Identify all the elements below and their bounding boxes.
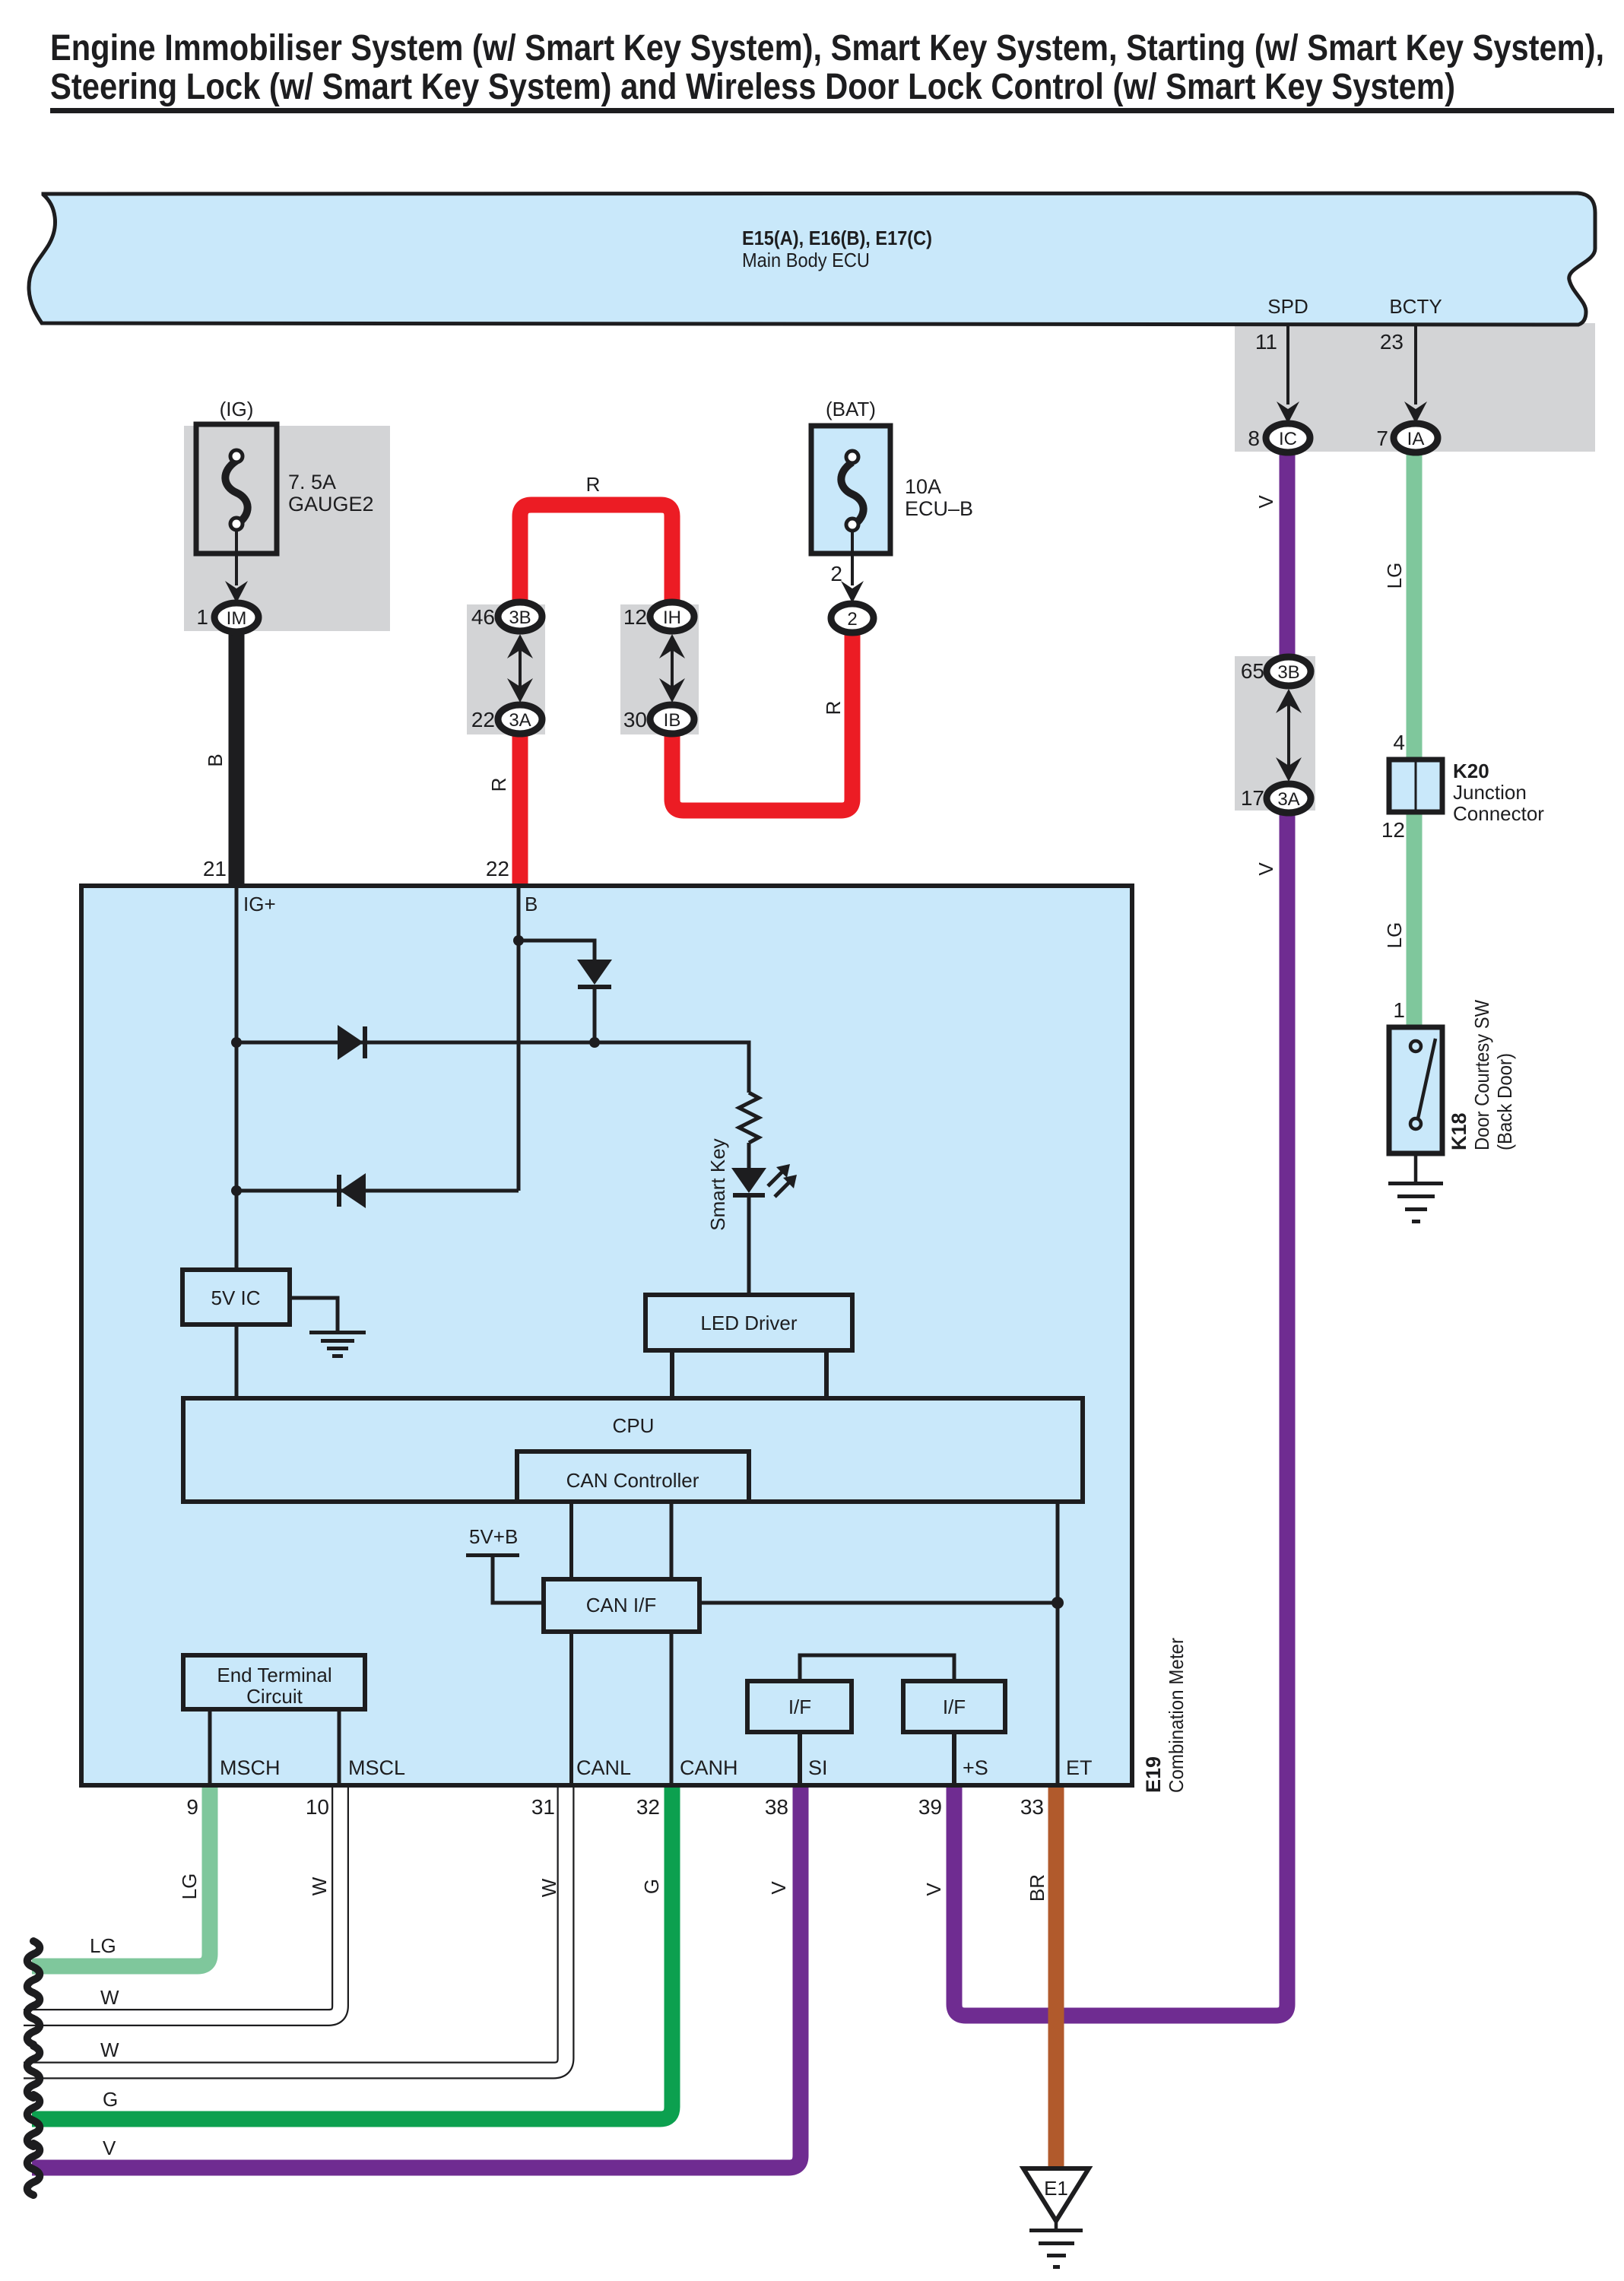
svg-text:(IG): (IG): [220, 398, 254, 420]
wire 5V IC to CPU: [235, 1325, 239, 1398]
rotated block label E19: [1142, 1756, 1165, 1793]
label LG on harness wire: [90, 1934, 116, 1957]
svg-text:IC: IC: [1279, 429, 1297, 449]
svg-text:G: G: [103, 2088, 118, 2111]
grey shade behind 3B/3A connector pair: [467, 604, 545, 734]
pin 12 number under K20: [1381, 818, 1405, 842]
svg-text:11: 11: [1255, 330, 1277, 354]
wire fuse BAT to connector 2 with arrow: [841, 531, 864, 603]
svg-text:3B: 3B: [509, 608, 531, 628]
connector 3A right: [1267, 784, 1311, 813]
svg-text:Circuit: Circuit: [246, 1685, 303, 1708]
5V IC block: [182, 1270, 290, 1325]
pin 38 number: [765, 1795, 788, 1819]
pin 11 number: [1255, 330, 1277, 354]
svg-text:LG: LG: [90, 1934, 116, 1957]
rotated wire label LG pin 9: [178, 1873, 201, 1900]
wire LG (green) from IA down to K20: [1407, 452, 1423, 762]
pin 12 number at IH: [623, 605, 647, 629]
pin 22 number at 3A: [471, 708, 495, 731]
wire I/F to SI pin: [798, 1732, 802, 1785]
svg-text:R: R: [586, 473, 601, 496]
rotated wire label LG below IA: [1383, 563, 1406, 589]
fuse 7.5A GAUGE2 box: [196, 424, 277, 554]
pin 17 number: [1241, 786, 1264, 810]
svg-text:7: 7: [1376, 427, 1388, 450]
title underline: [50, 108, 1614, 113]
rotated label K18: [1448, 1112, 1470, 1150]
connector 3A: [498, 705, 542, 734]
wire R (red) from 3A down to pin 22: [512, 731, 528, 888]
wire LG (green) from pin 9 MSCH down-left to harness: [32, 1784, 210, 1966]
rotated wire label W pin 31: [538, 1878, 560, 1897]
pin label CANL: [576, 1756, 631, 1779]
label W on harness wire: [100, 1986, 119, 2009]
pin 65 number: [1241, 659, 1264, 683]
grey shade behind IH/IB connector pair: [620, 604, 699, 734]
svg-text:BR: BR: [1026, 1874, 1048, 1902]
svg-text:IB: IB: [664, 710, 681, 731]
label G on harness wire: [103, 2088, 118, 2111]
resistor R1 for smart key LED: [739, 1093, 759, 1143]
fuse element ECU-B: [841, 451, 863, 531]
wire ETC to MSCH pin: [208, 1709, 212, 1785]
harness continuation squiggle at V wire end: [27, 2143, 40, 2195]
wire IG+ internal vertical: [235, 886, 239, 1272]
rotated wire label V pin 38: [767, 1881, 790, 1895]
wire label R above red jumper: [586, 473, 601, 496]
CAN Controller block: [517, 1451, 749, 1502]
pin 30 number: [623, 708, 647, 731]
pin 1 number above K18: [1393, 998, 1405, 1022]
wire CAN I/F to ET line: [699, 1601, 1058, 1605]
fuse element GAUGE2: [225, 450, 247, 530]
wire ETC to MSCL pin: [338, 1709, 341, 1785]
svg-text:IH: IH: [663, 608, 681, 628]
svg-text:Steering Lock (w/ Smart Key Sy: Steering Lock (w/ Smart Key System) and …: [50, 67, 1455, 107]
svg-text:MSCL: MSCL: [348, 1756, 405, 1779]
svg-text:Connector: Connector: [1453, 802, 1544, 825]
svg-text:R: R: [822, 701, 845, 715]
svg-text:1: 1: [196, 605, 208, 629]
pin 1 number: [196, 605, 208, 629]
grey shade behind IC/IA connector row: [1235, 323, 1595, 452]
LED Driver block: [645, 1295, 852, 1350]
wire horizontal IG+ to smart key branch: [236, 1042, 749, 1093]
wire SPD to IC with arrow: [1277, 325, 1299, 424]
svg-text:LG: LG: [178, 1873, 201, 1900]
svg-text:10A: 10A: [905, 475, 941, 498]
junction connector K20: [1389, 760, 1442, 812]
pin label SI: [808, 1756, 828, 1779]
rotated wire label BR pin 33: [1026, 1874, 1048, 1902]
svg-text:CAN I/F: CAN I/F: [586, 1594, 656, 1616]
diode D2 (pointing right) on horizontal: [338, 1025, 367, 1060]
wire ET internal vertical: [1056, 1502, 1060, 1785]
svg-text:17: 17: [1241, 786, 1264, 810]
svg-text:I/F: I/F: [788, 1696, 811, 1718]
ground E1 triangle: [1023, 2168, 1089, 2269]
svg-text:23: 23: [1380, 330, 1404, 354]
pin label MSCH: [220, 1756, 281, 1779]
svg-text:V: V: [922, 1883, 945, 1896]
svg-text:End Terminal: End Terminal: [217, 1664, 331, 1686]
svg-text:Door Courtesy SW: Door Courtesy SW: [1470, 1000, 1493, 1150]
diode D3 (pointing left) on lower horizontal: [337, 1173, 366, 1208]
wire R (red) from 3B up over to IH: [520, 505, 672, 607]
svg-text:65: 65: [1241, 659, 1264, 683]
wire R (red) from IB down, right, up to connector 2: [672, 630, 852, 811]
title line 2: [50, 67, 1455, 107]
svg-text:+S: +S: [963, 1756, 988, 1779]
title line 1: [50, 28, 1604, 68]
I/F block +S: [903, 1681, 1005, 1732]
svg-text:LED Driver: LED Driver: [700, 1312, 797, 1334]
pin label IG+: [243, 893, 276, 915]
connector IC: [1266, 424, 1310, 452]
wire V (purple) from 17-3A down, left to +S pin 39: [954, 810, 1287, 2016]
Main Body ECU banner E15(A),E16(B),E17(C): [29, 193, 1595, 325]
svg-text:1: 1: [1393, 998, 1405, 1022]
double arrow between 3B and 3A: [507, 634, 533, 703]
pin 4 number: [1393, 731, 1405, 754]
node junction on ET line: [1051, 1597, 1064, 1609]
wire LED to LED Driver: [747, 1198, 751, 1296]
rotated wire label R below connector 2: [822, 701, 845, 715]
svg-text:B: B: [204, 753, 227, 766]
wire B internal vertical: [517, 886, 521, 1191]
svg-text:BCTY: BCTY: [1389, 295, 1442, 318]
svg-text:LG: LG: [1383, 922, 1406, 949]
rotated wire label LG below K20: [1383, 922, 1406, 949]
svg-text:W: W: [100, 2038, 119, 2061]
svg-text:5V+B: 5V+B: [469, 1525, 518, 1548]
svg-text:(BAT): (BAT): [826, 398, 876, 420]
svg-text:K18: K18: [1448, 1112, 1470, 1150]
svg-text:5V IC: 5V IC: [211, 1286, 260, 1309]
svg-text:B: B: [525, 893, 538, 915]
wire resistor to LED: [747, 1143, 751, 1168]
fuse 10A ECU-B box: [811, 426, 890, 554]
node junction IG+ at horizontal: [231, 1037, 242, 1048]
double arrow between 65-3B and 17-3A: [1276, 689, 1302, 782]
combination meter block E19: [81, 886, 1132, 1785]
connector IM: [214, 603, 259, 632]
CAN I/F block: [544, 1579, 699, 1632]
svg-text:4: 4: [1393, 731, 1405, 754]
svg-text:22: 22: [486, 857, 509, 880]
svg-text:W: W: [308, 1877, 331, 1896]
label V on harness wire: [103, 2137, 116, 2159]
banner label Main Body ECU: [742, 249, 870, 271]
label (IG): [220, 398, 254, 420]
svg-text:22: 22: [471, 708, 495, 731]
wire fuse IG to IM with arrow: [225, 530, 248, 603]
svg-text:SPD: SPD: [1267, 295, 1308, 318]
svg-text:W: W: [100, 1986, 119, 2009]
svg-text:7. 5A: 7. 5A: [288, 471, 336, 493]
svg-text:CANH: CANH: [680, 1756, 738, 1779]
wire B (black) from IM connector to pin 21: [229, 628, 245, 888]
svg-text:CAN Controller: CAN Controller: [566, 1469, 699, 1492]
svg-text:V: V: [103, 2137, 116, 2159]
pin 21 number: [203, 857, 227, 880]
wire CANH internal vertical: [670, 1502, 674, 1785]
svg-text:8: 8: [1248, 427, 1260, 450]
pin label BCTY: [1389, 295, 1442, 318]
pin 7 number: [1376, 427, 1388, 450]
wire BR (brown) from pin 33 ET down to E1 ground: [1048, 1784, 1064, 2172]
bracket joining I/F blocks: [800, 1655, 954, 1681]
pin 2 number: [830, 562, 842, 585]
svg-text:10: 10: [306, 1795, 329, 1819]
connector IB: [650, 705, 694, 734]
label 10A ECU-B: [905, 475, 973, 520]
pin 22 number: [486, 857, 509, 880]
svg-text:Smart Key: Smart Key: [706, 1138, 729, 1230]
svg-text:ECU–B: ECU–B: [905, 497, 973, 520]
connector IH: [650, 602, 694, 631]
wire branch from B to diode D1: [519, 941, 595, 960]
wire BCTY to IA with arrow: [1404, 325, 1427, 424]
svg-text:39: 39: [918, 1795, 942, 1819]
svg-text:W: W: [538, 1878, 560, 1897]
wire I/F to +S pin: [952, 1732, 956, 1785]
rotated label Door Courtesy SW: [1470, 1000, 1493, 1150]
wire CANL internal vertical: [569, 1502, 573, 1785]
svg-text:Main Body ECU: Main Body ECU: [742, 249, 870, 271]
svg-text:(Back Door): (Back Door): [1493, 1053, 1516, 1150]
svg-text:3A: 3A: [509, 710, 531, 731]
pin label CANH: [680, 1756, 738, 1779]
ground symbol below K18: [1388, 1153, 1443, 1223]
wire W (white) from pin 10 MSCL down-left to harness: [24, 1784, 341, 2018]
label W on second harness wire: [100, 2038, 119, 2061]
svg-text:12: 12: [1381, 818, 1405, 842]
svg-text:E15(A), E16(B), E17(C): E15(A), E16(B), E17(C): [742, 227, 932, 249]
rotated wire label V pin 39: [922, 1883, 945, 1896]
pin label ET: [1066, 1756, 1093, 1779]
LED smart key indicator: [731, 1164, 797, 1198]
pin label +S: [963, 1756, 988, 1779]
connector 3B right: [1267, 657, 1311, 686]
svg-text:CANL: CANL: [576, 1756, 631, 1779]
End Terminal Circuit block: [183, 1655, 365, 1709]
rotated block label Combination Meter: [1165, 1638, 1188, 1793]
svg-text:31: 31: [531, 1795, 555, 1819]
rotated wire label G pin 32: [640, 1879, 663, 1894]
pin 23 number: [1380, 330, 1404, 354]
wire V (purple) from pin 38 SI down-left to harness: [32, 1784, 801, 2168]
svg-text:2: 2: [830, 562, 842, 585]
svg-text:38: 38: [765, 1795, 788, 1819]
wire horizontal lower with diode D3: [236, 1189, 519, 1193]
node junction IG+ at lower horizontal: [231, 1185, 242, 1196]
harness continuation squiggle at W wire end: [27, 1993, 40, 2045]
svg-text:IA: IA: [1407, 429, 1425, 449]
pin label B: [525, 893, 538, 915]
svg-text:33: 33: [1020, 1795, 1044, 1819]
pin 8 number: [1248, 427, 1260, 450]
banner label E15(A), E16(B), E17(C): [742, 227, 932, 249]
svg-text:IG+: IG+: [243, 893, 276, 915]
svg-text:9: 9: [186, 1795, 198, 1819]
svg-text:3B: 3B: [1277, 662, 1299, 683]
svg-text:Combination Meter: Combination Meter: [1165, 1638, 1188, 1793]
pin label MSCL: [348, 1756, 405, 1779]
rotated wire label B: [204, 753, 227, 766]
wire LG (green) from K20 down to K18: [1407, 810, 1423, 1029]
grey shade behind IG fuse: [184, 426, 390, 631]
node junction on B wire: [513, 935, 524, 946]
ground symbol at 5V IC: [309, 1331, 366, 1358]
power symbol 5V+B: [466, 1525, 544, 1603]
rotated wire label V below 17-3A: [1254, 862, 1277, 876]
rotated wire label W pin 10: [308, 1877, 331, 1896]
svg-text:IM: IM: [227, 608, 247, 629]
label 7. 5A GAUGE2: [288, 471, 374, 516]
wire 5V IC to ground: [290, 1298, 338, 1332]
wires LED Driver to CPU: [672, 1350, 826, 1398]
node junction D1 at horizontal: [589, 1037, 600, 1048]
svg-text:GAUGE2: GAUGE2: [288, 493, 374, 516]
label (BAT): [826, 398, 876, 420]
svg-text:12: 12: [623, 605, 647, 629]
wire G (green) from pin 32 CANH down-left to harness: [32, 1784, 672, 2119]
connector 2: [831, 604, 874, 633]
svg-text:2: 2: [847, 609, 857, 630]
pin label SPD: [1267, 295, 1308, 318]
svg-text:LG: LG: [1383, 563, 1406, 589]
svg-text:I/F: I/F: [943, 1696, 966, 1718]
svg-text:G: G: [640, 1879, 663, 1894]
svg-text:Engine Immobiliser System (w/: Engine Immobiliser System (w/ Smart Key …: [50, 28, 1604, 68]
connector IA: [1394, 424, 1438, 452]
pin 39 number: [918, 1795, 942, 1819]
svg-text:ET: ET: [1066, 1756, 1093, 1779]
door courtesy switch K18: [1389, 1027, 1442, 1153]
svg-text:K20: K20: [1453, 760, 1489, 782]
harness continuation squiggle at second W wire end: [27, 2046, 40, 2098]
label K20 Junction Connector: [1453, 760, 1544, 825]
connector 3B: [498, 602, 542, 631]
pin 31 number: [531, 1795, 555, 1819]
svg-text:R: R: [487, 778, 510, 792]
pin 46 number: [471, 605, 495, 629]
I/F block SI: [747, 1681, 852, 1732]
double arrow between IH and IB: [659, 634, 685, 703]
pin 33 number: [1020, 1795, 1044, 1819]
pin 32 number: [636, 1795, 660, 1819]
svg-text:21: 21: [203, 857, 227, 880]
CPU block: [183, 1398, 1083, 1502]
diode D1 (cathode down): [577, 960, 612, 1042]
rotated label (Back Door): [1493, 1053, 1516, 1150]
svg-text:Junction: Junction: [1453, 781, 1527, 804]
svg-text:V: V: [767, 1881, 790, 1895]
pin 10 number: [306, 1795, 329, 1819]
svg-text:E19: E19: [1142, 1756, 1165, 1793]
rotated label Smart Key: [706, 1138, 729, 1230]
harness continuation squiggle at LG wire end: [27, 1941, 40, 1993]
rotated wire label R below 3A: [487, 778, 510, 792]
svg-text:MSCH: MSCH: [220, 1756, 281, 1779]
svg-text:CPU: CPU: [613, 1414, 655, 1437]
pin 9 number: [186, 1795, 198, 1819]
svg-text:V: V: [1254, 862, 1277, 876]
svg-text:30: 30: [623, 708, 647, 731]
svg-text:E1: E1: [1044, 2177, 1068, 2200]
svg-text:46: 46: [471, 605, 495, 629]
rotated wire label V below IC: [1254, 495, 1277, 509]
harness continuation squiggle at G wire end: [27, 2095, 40, 2146]
wire V (purple) from IC down to 65-3B: [1280, 452, 1296, 658]
wire W (white) from pin 31 CANL down-left to harness: [24, 1784, 566, 2070]
svg-text:SI: SI: [808, 1756, 828, 1779]
grey shade behind 65-3B/17-3A connector pair: [1235, 656, 1315, 811]
svg-text:3A: 3A: [1277, 789, 1299, 810]
svg-text:V: V: [1254, 495, 1277, 509]
svg-text:32: 32: [636, 1795, 660, 1819]
